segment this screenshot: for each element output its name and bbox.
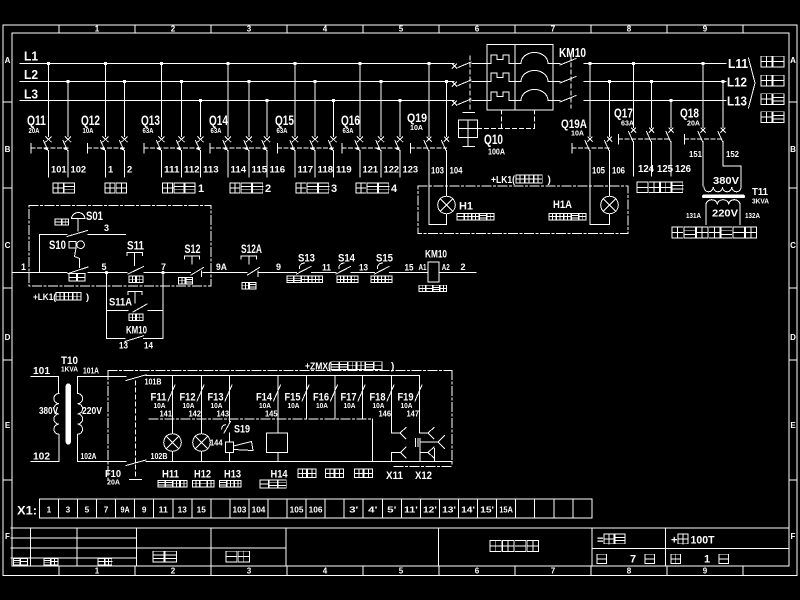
svg-text:8: 8 bbox=[627, 25, 632, 34]
limit switch S15 bbox=[375, 253, 394, 275]
svg-text:9A: 9A bbox=[216, 262, 227, 272]
svg-text:9A: 9A bbox=[121, 505, 130, 514]
svg-text:S14: S14 bbox=[338, 253, 356, 265]
circuit breaker Q14 bbox=[209, 62, 285, 177]
svg-text:S10: S10 bbox=[49, 238, 66, 252]
key switch S10 bbox=[49, 238, 88, 281]
svg-text:X12: X12 bbox=[415, 470, 432, 482]
svg-text:H11: H11 bbox=[162, 469, 179, 481]
svg-text:124: 124 bbox=[638, 164, 654, 175]
enclosure +LK1 console box (lamps) bbox=[418, 175, 628, 234]
svg-text:1: 1 bbox=[21, 262, 26, 272]
svg-text:102B: 102B bbox=[151, 452, 168, 461]
svg-text:101A: 101A bbox=[83, 367, 99, 376]
circuit breaker Q13 bbox=[141, 62, 219, 177]
svg-text:13': 13' bbox=[442, 505, 456, 514]
svg-text:10A: 10A bbox=[316, 401, 329, 410]
node 5 bbox=[102, 262, 107, 272]
svg-text:131A: 131A bbox=[686, 211, 701, 220]
svg-text:7: 7 bbox=[161, 262, 166, 272]
svg-text:11: 11 bbox=[159, 505, 169, 514]
svg-text:10A: 10A bbox=[410, 123, 424, 132]
fuse F12 bbox=[180, 376, 205, 434]
svg-text:A: A bbox=[790, 56, 796, 65]
node 13 bbox=[359, 263, 368, 273]
svg-text:63A: 63A bbox=[211, 126, 222, 135]
svg-text:7: 7 bbox=[551, 25, 556, 34]
svg-text:10A: 10A bbox=[344, 401, 357, 410]
svg-text:A2: A2 bbox=[442, 263, 450, 272]
svg-text:116: 116 bbox=[270, 165, 286, 175]
svg-text:145: 145 bbox=[265, 409, 278, 419]
svg-text:H1: H1 bbox=[459, 201, 473, 213]
circuit breaker Q12 bbox=[81, 62, 132, 177]
wire control line 1-2 bbox=[13, 271, 476, 274]
wire L11 bbox=[584, 56, 748, 71]
wire L12 bbox=[584, 75, 747, 90]
node 11 bbox=[322, 263, 331, 273]
wire 101A bbox=[78, 367, 127, 377]
svg-text:15: 15 bbox=[197, 505, 207, 514]
svg-text:1: 1 bbox=[47, 505, 52, 514]
transformer T11 bbox=[686, 176, 769, 225]
circuit breaker Q15 bbox=[275, 62, 352, 177]
switch-fuse F10 bbox=[105, 375, 146, 487]
svg-text:7: 7 bbox=[104, 505, 109, 514]
svg-text:20A: 20A bbox=[29, 126, 40, 135]
svg-text:102: 102 bbox=[33, 452, 50, 463]
svg-text:15A: 15A bbox=[499, 505, 513, 514]
indicator lamp H1A bbox=[549, 196, 618, 224]
svg-text:141: 141 bbox=[160, 409, 173, 419]
svg-text:8: 8 bbox=[627, 567, 632, 576]
svg-text:12': 12' bbox=[423, 505, 437, 514]
feeder label 冷风机2 bbox=[230, 183, 271, 195]
wire spare return bbox=[372, 419, 374, 462]
fuse F11 bbox=[151, 376, 176, 434]
label 梯内灯 bbox=[193, 480, 215, 487]
label +ZMX bbox=[305, 362, 394, 373]
node 9 bbox=[276, 262, 281, 272]
fuse F14 bbox=[256, 376, 281, 434]
svg-text:106: 106 bbox=[309, 505, 323, 514]
svg-text:1: 1 bbox=[704, 554, 710, 566]
svg-text:L2: L2 bbox=[24, 67, 38, 82]
svg-text:KM10: KM10 bbox=[425, 249, 447, 261]
svg-text:6: 6 bbox=[475, 25, 480, 34]
svg-text:106: 106 bbox=[612, 166, 625, 176]
svg-text:L12: L12 bbox=[727, 75, 747, 90]
circuit breaker Q18 bbox=[680, 62, 741, 186]
emergency stop S01 bbox=[39, 209, 125, 273]
svg-text:6: 6 bbox=[475, 567, 480, 576]
svg-text:H13: H13 bbox=[224, 469, 241, 481]
svg-text:A1: A1 bbox=[419, 263, 427, 272]
svg-text:2: 2 bbox=[171, 25, 176, 34]
svg-text:3: 3 bbox=[104, 223, 109, 233]
svg-text:14: 14 bbox=[144, 341, 153, 351]
svg-text:S11A: S11A bbox=[109, 297, 132, 309]
circuit breaker Q11 bbox=[27, 62, 86, 177]
svg-text:4: 4 bbox=[323, 25, 328, 34]
svg-text:63A: 63A bbox=[143, 126, 154, 135]
label 南门联 bbox=[337, 276, 358, 282]
svg-text:+: + bbox=[671, 535, 677, 547]
node 7 bbox=[161, 262, 166, 272]
enclosure +ZMX lighting box bbox=[108, 371, 452, 481]
label 备用 2 bbox=[326, 469, 344, 477]
pushbutton S12 NC bbox=[179, 242, 204, 284]
node 1 bbox=[21, 262, 26, 272]
label +LK1 console bbox=[33, 292, 89, 303]
svg-text:100T: 100T bbox=[691, 535, 715, 547]
circuit breaker Q16 bbox=[341, 62, 418, 177]
label 副钩 bbox=[761, 75, 784, 86]
svg-text:101: 101 bbox=[33, 366, 50, 377]
feeder label 照明 bbox=[53, 183, 75, 193]
svg-text:H14: H14 bbox=[271, 469, 289, 481]
svg-text:143: 143 bbox=[217, 409, 230, 419]
svg-text:KM10: KM10 bbox=[559, 45, 586, 60]
svg-text:117: 117 bbox=[298, 165, 314, 175]
svg-text:B: B bbox=[5, 145, 11, 154]
svg-text:380V: 380V bbox=[713, 176, 740, 187]
label 主钩 bbox=[761, 56, 784, 67]
svg-text:E: E bbox=[790, 421, 796, 430]
svg-text:3': 3' bbox=[349, 505, 358, 514]
wire branch node5 drop bbox=[106, 273, 108, 339]
svg-text:3KVA: 3KVA bbox=[752, 197, 769, 206]
label 对讲机 bbox=[260, 480, 286, 488]
svg-text:13: 13 bbox=[178, 505, 188, 514]
svg-text:=: = bbox=[597, 535, 603, 547]
svg-text:119: 119 bbox=[336, 165, 352, 175]
svg-text:2: 2 bbox=[461, 262, 466, 272]
node 9A bbox=[216, 262, 227, 272]
feeder label 冷风机4 bbox=[356, 183, 398, 195]
pushbutton S11A bbox=[109, 292, 147, 321]
svg-text:9: 9 bbox=[276, 262, 281, 272]
svg-text:146: 146 bbox=[379, 409, 392, 419]
lamp H12 bbox=[193, 434, 211, 481]
node 15 bbox=[405, 263, 414, 273]
svg-text:100A: 100A bbox=[488, 148, 505, 157]
svg-text:S12: S12 bbox=[185, 242, 201, 256]
svg-text:14': 14' bbox=[461, 505, 475, 514]
svg-text:L1: L1 bbox=[24, 49, 38, 64]
svg-text:7: 7 bbox=[551, 567, 556, 576]
svg-text:220V: 220V bbox=[82, 405, 102, 417]
svg-text:1: 1 bbox=[95, 567, 100, 576]
svg-text:115: 115 bbox=[252, 165, 268, 175]
svg-text:2: 2 bbox=[265, 183, 271, 195]
svg-text:20A: 20A bbox=[107, 478, 121, 487]
fuse F18 bbox=[370, 376, 395, 434]
svg-text:S01: S01 bbox=[86, 209, 103, 223]
svg-text:102: 102 bbox=[71, 165, 87, 175]
svg-text:121: 121 bbox=[363, 165, 379, 175]
label 小车 bbox=[761, 112, 784, 123]
svg-text:10A: 10A bbox=[83, 126, 94, 135]
svg-text:123: 123 bbox=[403, 165, 419, 175]
svg-text:5: 5 bbox=[399, 567, 404, 576]
svg-text:15: 15 bbox=[405, 263, 414, 273]
svg-text:118: 118 bbox=[318, 165, 334, 175]
terminal strip X1 bbox=[17, 499, 592, 518]
svg-text:+ZMX(: +ZMX( bbox=[305, 362, 332, 373]
feeder label 冷风机1 bbox=[163, 183, 205, 195]
wire 101B bus bbox=[145, 376, 420, 387]
svg-text:D: D bbox=[790, 333, 796, 342]
svg-text:B: B bbox=[790, 145, 796, 154]
svg-text:144: 144 bbox=[210, 438, 223, 448]
fuse F15 spare bbox=[285, 376, 310, 420]
horn H13 bbox=[224, 442, 253, 481]
wire S11A row bbox=[107, 310, 164, 312]
svg-text:S15: S15 bbox=[376, 253, 393, 265]
svg-text:112: 112 bbox=[184, 165, 200, 175]
wire L2 bus bbox=[20, 67, 454, 82]
label 驾驶室灯 bbox=[158, 480, 187, 487]
svg-text:102A: 102A bbox=[81, 452, 97, 461]
svg-text:C: C bbox=[790, 241, 796, 250]
contactor KM10 main contacts bbox=[478, 45, 587, 129]
svg-text:114: 114 bbox=[231, 165, 247, 175]
wire L3 bus bbox=[20, 87, 454, 102]
svg-text:220V: 220V bbox=[712, 209, 739, 220]
svg-text:3: 3 bbox=[247, 567, 252, 576]
wire branch node7 drop bbox=[162, 273, 164, 339]
svg-text:1: 1 bbox=[108, 165, 113, 175]
svg-text:152: 152 bbox=[726, 149, 739, 159]
svg-text:142: 142 bbox=[189, 409, 202, 419]
svg-text:13: 13 bbox=[359, 263, 368, 273]
svg-text:15': 15' bbox=[480, 505, 494, 514]
svg-text:105: 105 bbox=[592, 166, 605, 176]
svg-text:103: 103 bbox=[233, 505, 247, 514]
transformer T10 bbox=[31, 355, 102, 463]
svg-text:L13: L13 bbox=[727, 94, 747, 109]
svg-text:104: 104 bbox=[252, 505, 266, 514]
label 备用 3 bbox=[355, 469, 373, 477]
circuit breaker Q19A bbox=[561, 62, 625, 225]
switch S19 bbox=[210, 422, 250, 448]
svg-text:10A: 10A bbox=[571, 129, 585, 138]
svg-text:10A: 10A bbox=[288, 401, 301, 410]
limit switch S14 bbox=[336, 253, 356, 275]
node 3 bbox=[104, 223, 109, 233]
svg-text:3: 3 bbox=[66, 505, 71, 514]
svg-text:4': 4' bbox=[368, 505, 377, 514]
wire 102B bus bbox=[146, 452, 452, 462]
svg-text:11': 11' bbox=[404, 505, 418, 514]
svg-text:151: 151 bbox=[689, 149, 702, 159]
svg-text:S11: S11 bbox=[127, 239, 144, 253]
svg-text:20A: 20A bbox=[687, 119, 701, 128]
svg-text:5': 5' bbox=[387, 505, 396, 514]
wire L1 bus bbox=[20, 49, 454, 64]
connector X12 bbox=[415, 428, 445, 483]
svg-text:132A: 132A bbox=[745, 211, 760, 220]
svg-text:104: 104 bbox=[450, 166, 463, 176]
svg-text:3: 3 bbox=[247, 25, 252, 34]
fuse F16 spare bbox=[313, 376, 338, 420]
svg-text:101: 101 bbox=[51, 165, 67, 175]
svg-text:4: 4 bbox=[391, 183, 398, 195]
label 电动葫芦 bbox=[637, 182, 683, 192]
svg-text:+LK1(: +LK1( bbox=[491, 175, 516, 186]
svg-text:Q10: Q10 bbox=[484, 131, 503, 147]
svg-text:7: 7 bbox=[630, 554, 636, 566]
svg-text:122: 122 bbox=[384, 165, 400, 175]
svg-text:147: 147 bbox=[407, 409, 420, 419]
svg-text:63A: 63A bbox=[277, 126, 288, 135]
svg-text:): ) bbox=[86, 292, 89, 303]
circuit breaker Q19 bbox=[407, 62, 463, 225]
svg-text:126: 126 bbox=[675, 164, 691, 175]
svg-text:X11: X11 bbox=[386, 470, 403, 482]
svg-text:S13: S13 bbox=[298, 253, 315, 265]
svg-text:L11: L11 bbox=[728, 56, 748, 71]
indicator lamp H1 bbox=[429, 196, 494, 224]
svg-text:S12A: S12A bbox=[241, 242, 262, 256]
pushbutton S12A NC bbox=[241, 242, 262, 289]
svg-text:C: C bbox=[5, 241, 11, 250]
svg-text:): ) bbox=[548, 175, 551, 186]
label 备用 1 bbox=[298, 469, 316, 477]
svg-text:63A: 63A bbox=[621, 119, 635, 128]
lamp H11 bbox=[162, 434, 181, 481]
svg-text:1: 1 bbox=[95, 25, 100, 34]
fuse F17 spare bbox=[341, 376, 366, 420]
svg-text:380V: 380V bbox=[39, 405, 58, 417]
svg-text:S19: S19 bbox=[234, 424, 250, 436]
feeder label 总控 bbox=[105, 183, 127, 193]
label 驾驶室门联 bbox=[287, 276, 322, 282]
title block bbox=[11, 528, 789, 566]
svg-text:63A: 63A bbox=[343, 126, 354, 135]
svg-text:L3: L3 bbox=[24, 87, 38, 102]
svg-text:2: 2 bbox=[127, 165, 132, 175]
intercom H14 bbox=[267, 433, 289, 481]
connector X11 bbox=[386, 428, 406, 483]
svg-text:103: 103 bbox=[431, 166, 444, 176]
svg-text:125: 125 bbox=[657, 164, 673, 175]
svg-text:5: 5 bbox=[399, 25, 404, 34]
svg-text:KM10: KM10 bbox=[126, 325, 147, 337]
svg-text:4: 4 bbox=[323, 567, 328, 576]
enclosure +LK1 console box (control) bbox=[29, 206, 211, 287]
auxiliary contact KM10 13-14 bbox=[119, 325, 153, 351]
disconnect switch Q10 bbox=[452, 56, 505, 157]
svg-text:X1:: X1: bbox=[17, 504, 37, 518]
svg-text:105: 105 bbox=[290, 505, 304, 514]
fuse F19 bbox=[398, 376, 423, 434]
svg-text:F: F bbox=[791, 532, 796, 541]
svg-text:E: E bbox=[5, 421, 11, 430]
svg-text:F: F bbox=[5, 532, 10, 541]
svg-text:): ) bbox=[391, 362, 394, 373]
circuit breaker Q17 bbox=[614, 62, 691, 176]
svg-text:D: D bbox=[5, 333, 11, 342]
svg-text:5: 5 bbox=[85, 505, 90, 514]
svg-text:9: 9 bbox=[703, 567, 708, 576]
wire L13 bbox=[584, 94, 747, 109]
label 各机构控制电源 bbox=[672, 227, 757, 238]
svg-text:A: A bbox=[5, 56, 11, 65]
label 警笛器 bbox=[220, 480, 242, 487]
svg-text:2: 2 bbox=[171, 567, 176, 576]
contactor coil KM10 bbox=[419, 249, 466, 292]
svg-text:H12: H12 bbox=[194, 469, 211, 481]
svg-text:H1A: H1A bbox=[553, 199, 572, 211]
limit switch S13 bbox=[297, 253, 316, 275]
svg-text:11: 11 bbox=[322, 263, 331, 273]
svg-text:1: 1 bbox=[198, 183, 204, 195]
svg-text:13: 13 bbox=[119, 341, 128, 351]
feeder label 冷风机3 bbox=[296, 183, 337, 195]
svg-text:101B: 101B bbox=[145, 378, 162, 387]
svg-text:+LK1(: +LK1( bbox=[33, 292, 57, 303]
label 大车 bbox=[761, 94, 784, 105]
pushbutton S11 bbox=[127, 239, 144, 283]
svg-text:111: 111 bbox=[164, 165, 180, 175]
svg-text:113: 113 bbox=[203, 165, 219, 175]
label 北门联 bbox=[371, 276, 392, 282]
svg-text:9: 9 bbox=[703, 25, 708, 34]
brace to crane feeders bbox=[749, 58, 756, 108]
svg-text:3: 3 bbox=[331, 183, 337, 195]
svg-text:5: 5 bbox=[102, 262, 107, 272]
svg-text:1KVA: 1KVA bbox=[61, 365, 79, 374]
wire 102A bbox=[78, 452, 127, 462]
fuse F13 bbox=[208, 376, 233, 422]
wire KM10 aux row bbox=[107, 338, 164, 340]
svg-text:9: 9 bbox=[142, 505, 147, 514]
